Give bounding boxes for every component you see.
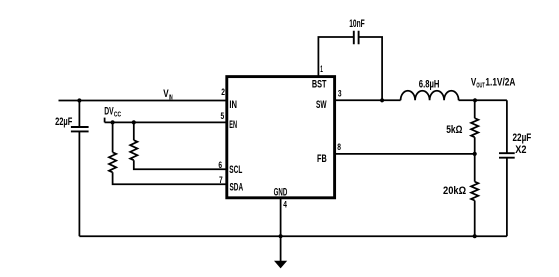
- wire R-TOP to FB node: [474, 137, 476, 154]
- wire to pullup resistor SDA: [112, 122, 114, 152]
- wire GND pin 4: [280, 198, 282, 261]
- node FB junction: [473, 152, 477, 156]
- svg-text:EN: EN: [229, 119, 237, 131]
- wire to pullup resistor SCL: [133, 122, 135, 140]
- wire VOUT to C-OUT top: [506, 100, 508, 152]
- svg-text:OUT: OUT: [476, 81, 485, 90]
- svg-text:22µF: 22µF: [55, 116, 72, 128]
- wire FB pin 8: [336, 153, 475, 155]
- inductor L1 6.8uH: [401, 91, 459, 101]
- ground symbol: [275, 261, 286, 267]
- wire EN / DVCC rail: [105, 121, 226, 123]
- svg-text:4: 4: [283, 200, 287, 211]
- node DVCC-SDA junction: [111, 120, 115, 124]
- svg-text:5kΩ: 5kΩ: [446, 124, 462, 136]
- node R-BOT ground junction: [473, 234, 477, 238]
- svg-text:BST: BST: [312, 79, 327, 91]
- wire ground rail: [79, 235, 507, 237]
- svg-text:CC: CC: [114, 109, 122, 118]
- wire C-IN bottom to ground rail: [78, 131, 80, 236]
- svg-text:1.1V/2A: 1.1V/2A: [485, 77, 515, 89]
- wire VOUT node to R-TOP: [474, 100, 476, 118]
- wire C-BST to SW node: [359, 37, 383, 100]
- svg-text:SW: SW: [316, 99, 327, 111]
- svg-text:GND: GND: [274, 186, 288, 198]
- svg-text:10nF: 10nF: [349, 18, 365, 30]
- svg-text:1: 1: [320, 64, 323, 75]
- wire L1 to VOUT node: [459, 99, 507, 101]
- svg-text:X2: X2: [515, 144, 526, 156]
- node SW junction: [380, 98, 384, 102]
- svg-text:DV: DV: [104, 105, 114, 117]
- capacitor C-BST 10nF: [354, 31, 359, 45]
- wire R-BOT to ground rail: [474, 201, 476, 237]
- svg-text:IN: IN: [169, 92, 173, 101]
- wire VIN input: [59, 100, 227, 102]
- svg-text:3: 3: [338, 89, 342, 100]
- svg-text:IN: IN: [229, 99, 237, 111]
- node VIN junction: [77, 98, 81, 102]
- svg-text:SCL: SCL: [229, 164, 242, 176]
- capacitor C-IN 22uF: [71, 127, 89, 131]
- svg-text:20kΩ: 20kΩ: [443, 185, 466, 197]
- svg-text:FB: FB: [317, 153, 327, 165]
- node VOUT junction: [473, 98, 477, 102]
- resistor R-BOT 20k feedback lower: [471, 182, 478, 201]
- node GND rail junction: [279, 234, 283, 238]
- svg-text:22µF: 22µF: [513, 132, 532, 144]
- wire FB node to R-BOT: [474, 154, 476, 182]
- wire BST pin 1 riser: [318, 37, 353, 77]
- wire SW pin 3: [336, 99, 401, 101]
- svg-text:2: 2: [221, 87, 225, 98]
- svg-text:8: 8: [337, 142, 341, 153]
- wire DVCC stub: [104, 118, 106, 123]
- svg-text:6.8µH: 6.8µH: [419, 79, 440, 91]
- wire R-SDA to SDA pin: [113, 172, 226, 184]
- resistor R-SDA pullup: [109, 152, 116, 172]
- wire C-OUT bottom to ground rail: [506, 158, 508, 237]
- resistor R-SCL pullup: [130, 140, 137, 160]
- resistor R-TOP 5k feedback upper: [471, 118, 478, 137]
- svg-text:7: 7: [219, 175, 223, 186]
- svg-text:SDA: SDA: [230, 181, 244, 193]
- svg-text:6: 6: [218, 160, 222, 171]
- wire R-SCL to SCL pin: [134, 160, 226, 169]
- node DVCC-SCL junction: [132, 120, 136, 124]
- wire VIN node to C-IN top: [78, 101, 80, 127]
- svg-text:5: 5: [221, 111, 225, 122]
- IC U1 (buck regulator): [227, 77, 335, 198]
- capacitor C-OUT 22uF x2: [499, 153, 515, 158]
